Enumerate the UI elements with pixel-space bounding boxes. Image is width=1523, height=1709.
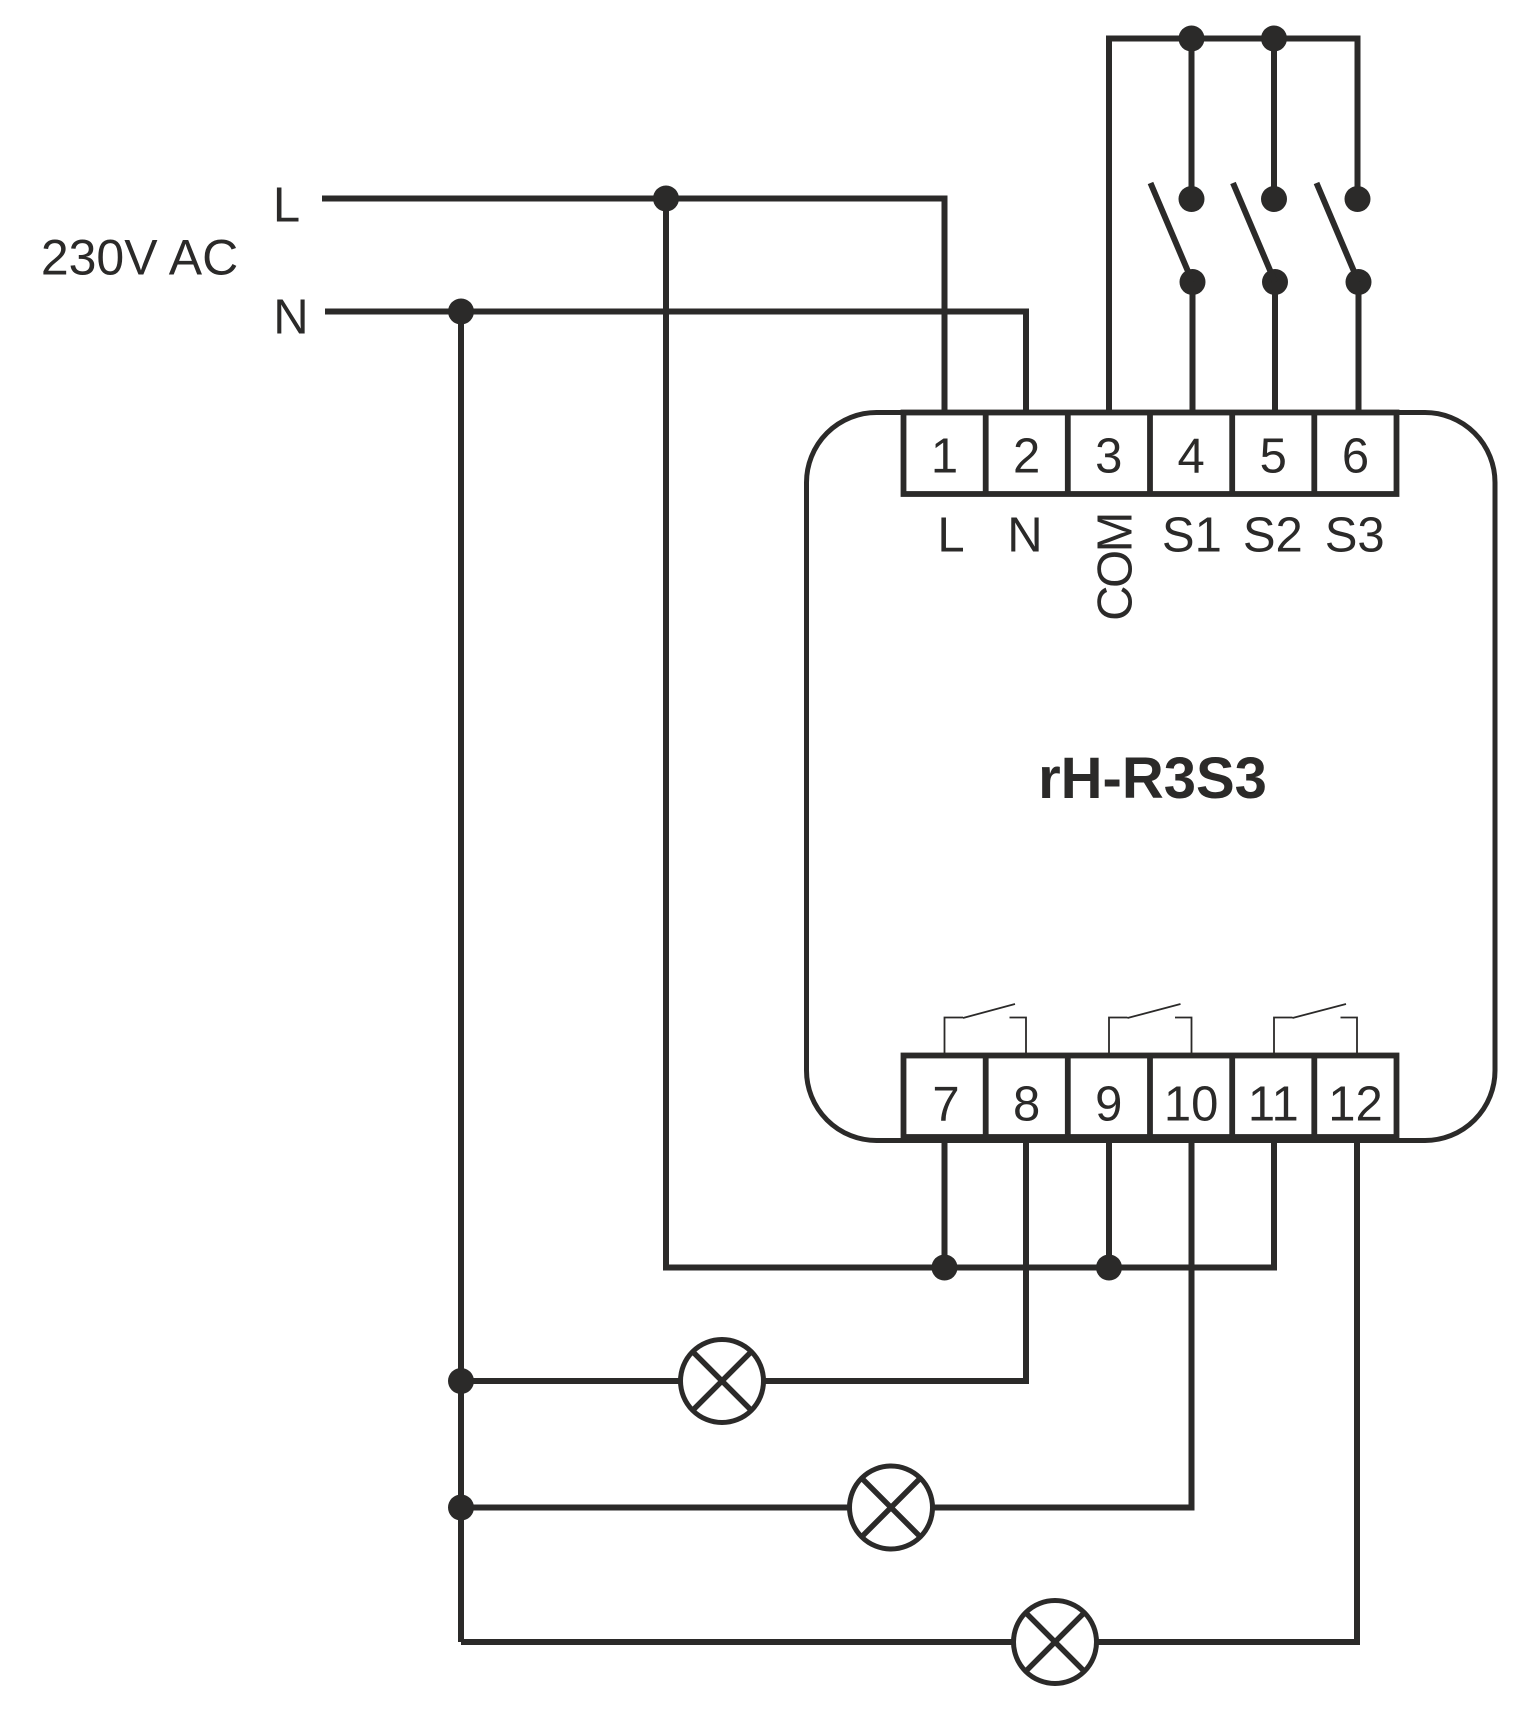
terminal strip bottom (7-12) [904, 1056, 1397, 1138]
wire lamp row 1 (terminal 8) [461, 1139, 1026, 1381]
junction L bus [653, 186, 679, 212]
wire N input to terminal 2 [325, 312, 1026, 413]
svg-text:S3: S3 [1325, 509, 1385, 563]
svg-text:4: 4 [1177, 430, 1204, 484]
svg-text:N: N [273, 291, 308, 345]
switch S2 [1233, 39, 1288, 413]
switch S3 [1317, 183, 1372, 412]
lamp E3 [1014, 1601, 1097, 1684]
terminal numbers 1-6 [931, 430, 1369, 484]
junction N bus [448, 299, 474, 325]
wire lamp row 3 (terminal 12) [461, 1139, 1357, 1642]
svg-text:8: 8 [1013, 1078, 1040, 1132]
junction bus to S1 [1179, 26, 1205, 52]
junction bus to S2 [1261, 26, 1287, 52]
wire terminal 7 down [942, 1139, 948, 1268]
wire lamp row 2 (terminal 10) [461, 1139, 1192, 1508]
svg-text:230V AC: 230V AC [41, 230, 238, 286]
svg-text:S2: S2 [1243, 509, 1303, 563]
svg-text:5: 5 [1260, 430, 1287, 484]
lamp E1 [681, 1340, 764, 1423]
svg-text:9: 9 [1095, 1078, 1122, 1132]
junction N to lamp row 1 [448, 1368, 474, 1394]
svg-text:N: N [1007, 509, 1042, 563]
svg-text:rH-R3S3: rH-R3S3 [1038, 746, 1267, 811]
relay contact K3 (11-12) [1274, 1004, 1357, 1058]
relay contact K1 (7-8) [945, 1004, 1027, 1058]
svg-text:7: 7 [932, 1078, 959, 1132]
svg-text:2: 2 [1013, 430, 1040, 484]
lamp E2 [850, 1466, 933, 1549]
svg-text:1: 1 [931, 430, 958, 484]
svg-text:10: 10 [1164, 1078, 1219, 1132]
wire terminal 9 down [1106, 1139, 1112, 1268]
svg-text:L: L [937, 509, 964, 563]
relay contact K2 (9-10) [1109, 1004, 1192, 1058]
svg-text:11: 11 [1248, 1078, 1299, 1132]
terminal numbers 7-12 [932, 1078, 1382, 1132]
svg-text:6: 6 [1342, 430, 1369, 484]
wire L input to terminal 1 [322, 199, 945, 413]
terminal labels L N COM S1 S2 S3 [937, 509, 1384, 563]
svg-text:S1: S1 [1162, 509, 1222, 563]
svg-text:3: 3 [1095, 430, 1122, 484]
svg-text:COM: COM [1089, 514, 1143, 621]
terminal strip top (1-6) [904, 413, 1397, 495]
switch S1 [1151, 39, 1206, 413]
junction terminal 7 to L bus [932, 1255, 958, 1281]
wire N bus vertical down [458, 312, 464, 1643]
svg-text:12: 12 [1328, 1078, 1383, 1132]
junction N to lamp row 2 [448, 1495, 474, 1521]
svg-text:L: L [273, 179, 300, 233]
junction terminal 9 to L bus [1096, 1255, 1122, 1281]
wire L bus vertical down to relay common row [666, 199, 1274, 1268]
device box U1 rH-R3S3 [807, 413, 1496, 1141]
wire switch supply bus (COM) [1109, 39, 1358, 413]
